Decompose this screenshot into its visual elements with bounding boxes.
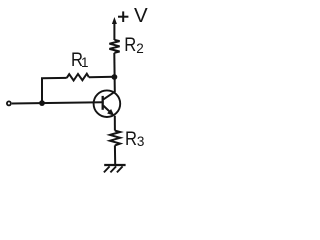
resistor R1 [67,74,89,81]
wire R1 left with corner [42,78,67,103]
resistor R3 [110,131,120,146]
resistor R2 [109,40,119,53]
svg-text:1: 1 [81,55,89,70]
svg-text:R: R [124,35,136,56]
wire R1 right [89,76,115,79]
label R3 [125,129,144,150]
svg-text:V: V [134,4,148,27]
wire collector rail [113,53,116,92]
label R1 [71,50,89,71]
wire base [12,102,103,103]
label R2 [124,35,144,56]
wire R3 bottom [114,145,116,165]
svg-text:R: R [125,129,137,150]
ground [104,165,126,172]
wire emitter [114,116,116,131]
junction collector/R1 [112,74,118,80]
label +V [118,4,148,27]
svg-text:2: 2 [136,41,144,56]
node +V supply arrow [112,17,117,40]
svg-text:3: 3 [137,134,145,149]
junction base/R1 [39,100,45,106]
input terminal [7,101,11,105]
transistor Q1 [94,90,121,117]
